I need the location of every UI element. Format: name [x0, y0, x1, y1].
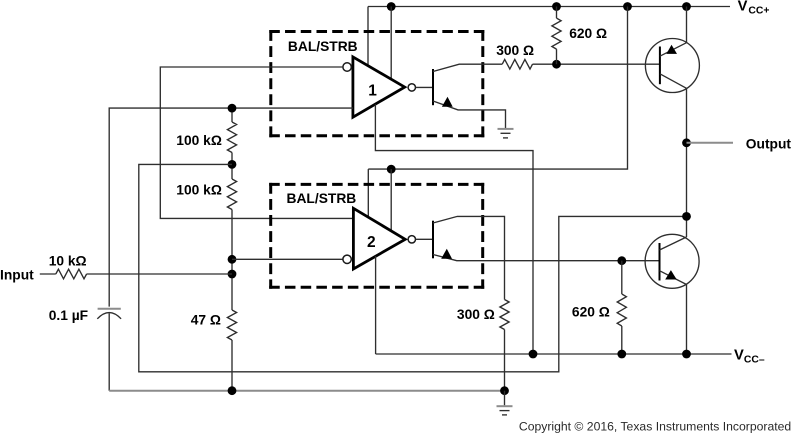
Q1 emitter arrow (PNP)	[666, 45, 677, 54]
wire divider mid feedback to Q2 collector	[139, 164, 687, 371]
node VCC-/620 Ohm lower	[617, 350, 626, 359]
wire 620 Ohm upper leads	[556, 7, 558, 19]
svg-text:2: 2	[367, 234, 376, 251]
dashed box comparator 1	[269, 30, 484, 137]
svg-text:V: V	[734, 348, 744, 364]
wire U2 output to T2 base	[416, 238, 434, 240]
node Q2 collector / feedback	[682, 212, 691, 221]
wire T1 emitter	[433, 101, 506, 128]
wire U2 strobe to VCC-	[375, 256, 377, 354]
svg-text:1: 1	[368, 82, 377, 99]
Q2 emitter	[660, 271, 687, 285]
Q1 collector	[660, 74, 687, 89]
wire ground rail	[109, 390, 505, 392]
wire output stub	[687, 142, 734, 144]
node output	[682, 138, 691, 147]
node VCC+/Q1 emitter	[682, 2, 691, 11]
T1 emitter arrow	[442, 97, 453, 107]
U1 inverting input bubble	[343, 63, 351, 71]
ground (comparator 1 emitter)	[498, 129, 514, 138]
U2 output bubble	[408, 236, 415, 243]
node VCC+/U1 pin b	[387, 2, 396, 11]
wire divider top segment	[231, 108, 233, 122]
capacitor 0.1 uF plate	[98, 308, 121, 310]
ground (bottom)	[497, 406, 513, 415]
wire U1 IN+	[109, 108, 353, 307]
wire 300 Ohm to Q1 base	[533, 63, 660, 65]
node 47 Ohm / ground rail	[228, 386, 237, 395]
node U2 IN- branch	[228, 255, 237, 264]
wire U2 balance pin a	[367, 169, 369, 217]
node VCC+/620 ohm upper	[552, 2, 561, 11]
transistor Q1 circle	[645, 39, 699, 93]
node divider mid	[228, 160, 237, 169]
wire T2 collector to 300 Ohm lower	[433, 216, 505, 299]
Q1 base bar	[659, 47, 661, 85]
resistor 300 Ohm lower	[500, 300, 509, 330]
transistor T1 base bar	[432, 69, 434, 105]
resistor 620 Ohm upper	[552, 18, 561, 49]
node input	[228, 270, 237, 279]
wire T1 collector	[433, 64, 502, 71]
U1 output bubble	[408, 84, 415, 91]
wire U2 inverting input	[232, 258, 343, 260]
wire U2 balance pin b	[390, 169, 392, 230]
resistor 10 kOhm	[56, 269, 87, 279]
svg-text:CC–: CC–	[744, 354, 765, 365]
wire Q2 emitter to VCC-	[686, 285, 688, 355]
svg-text:CC+: CC+	[748, 6, 769, 17]
svg-text:300 Ω: 300 Ω	[457, 307, 495, 322]
Q2 emitter arrow (NPN)	[665, 270, 677, 279]
wire VCC+ rail	[368, 6, 730, 8]
svg-text:47 Ω: 47 Ω	[191, 312, 221, 327]
resistor 620 Ohm lower	[617, 294, 626, 326]
svg-text:620 Ω: 620 Ω	[569, 26, 607, 41]
node Q2 base / 620 Ohm lower	[617, 256, 626, 265]
wire 620 Ohm lower leads	[621, 261, 623, 294]
wire divider to input node	[231, 210, 233, 311]
svg-text:BAL/STRB: BAL/STRB	[287, 191, 357, 206]
node U2 pin b junction	[387, 165, 396, 174]
wire ground node stub	[504, 391, 506, 406]
svg-text:100 kΩ: 100 kΩ	[176, 133, 222, 148]
Q1 emitter	[660, 43, 687, 57]
wire 300 Ohm lower to ground node	[504, 330, 506, 391]
Q2 base bar	[659, 243, 661, 281]
resistor 47 Ohm	[227, 310, 236, 340]
wire U1 strobe to VCC-	[375, 104, 533, 354]
wire U2 supply riser	[368, 7, 627, 170]
svg-text:Input: Input	[0, 268, 34, 283]
resistor 100 kOhm upper	[227, 122, 236, 153]
svg-text:V: V	[738, 0, 748, 14]
wire U1 IN- to U2 IN+	[160, 67, 353, 218]
node 300 Ohm lower / ground rail	[500, 386, 509, 395]
wire Q1 collector to Q2 collector	[686, 88, 688, 237]
wire cap bottom to ground rail	[108, 313, 110, 391]
svg-text:300 Ω: 300 Ω	[496, 43, 534, 58]
label VCC+	[738, 0, 770, 17]
op-amp U2 triangle	[353, 208, 405, 269]
wire 47 Ohm to ground rail	[231, 340, 233, 391]
svg-text:BAL/STRB: BAL/STRB	[288, 39, 358, 54]
resistor 100 kOhm lower	[227, 179, 236, 210]
svg-text:100 kΩ: 100 kΩ	[176, 183, 222, 198]
node VCC+/U2 supply	[623, 2, 632, 11]
wire Q1 emitter to VCC+	[686, 7, 688, 43]
wire VCC- rail	[376, 353, 732, 355]
resistor 300 Ohm upper	[502, 59, 532, 69]
node VCC-/U1 strobe	[529, 350, 538, 359]
svg-text:10 kΩ: 10 kΩ	[49, 254, 87, 269]
op-amp U1 triangle	[353, 57, 405, 117]
wire U1 balance pin a	[367, 7, 369, 67]
svg-text:Output: Output	[746, 136, 791, 151]
wire divider middle segment	[231, 153, 233, 180]
T2 emitter arrow	[441, 249, 452, 259]
wire 10 kOhm to input node	[87, 273, 232, 275]
node VCC-/Q2 emitter	[682, 350, 691, 359]
Q2 collector	[660, 237, 687, 250]
transistor T2 base bar	[432, 221, 434, 259]
wire U1 balance pin b	[390, 7, 392, 80]
wire T2 emitter to Q2 base	[433, 255, 660, 261]
wire U1 output to T1 base	[416, 86, 434, 88]
capacitor 0.1 uF curved plate	[97, 313, 121, 319]
node 300/620/Q1 base	[552, 60, 561, 69]
dashed box comparator 2	[269, 183, 484, 289]
U2 inverting input bubble	[343, 255, 351, 263]
label VCC-	[734, 348, 765, 366]
svg-text:0.1 µF: 0.1 µF	[49, 308, 88, 323]
svg-text:Copyright © 2016, Texas Instru: Copyright © 2016, Texas Instruments Inco…	[519, 420, 791, 434]
svg-text:620 Ω: 620 Ω	[572, 305, 610, 320]
node divider top	[228, 104, 237, 113]
transistor Q2 circle	[645, 234, 699, 288]
wire input lead	[40, 273, 56, 275]
